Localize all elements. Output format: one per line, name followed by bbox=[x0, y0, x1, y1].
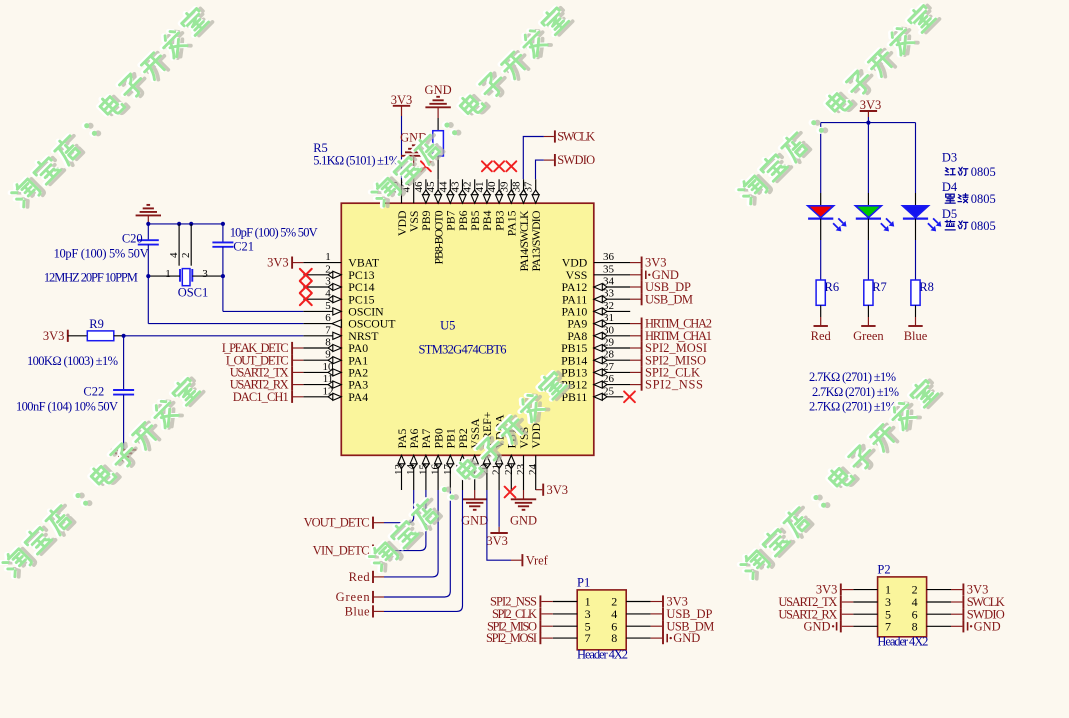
pin 10 (PA2) bbox=[303, 371, 341, 373]
svg-text:USB_DM: USB_DM bbox=[645, 292, 693, 306]
node junction C20 top bbox=[146, 222, 150, 226]
svg-text:12MHZ 20PF 10PPM: 12MHZ 20PF 10PPM bbox=[44, 271, 138, 285]
svg-text:Vref: Vref bbox=[526, 553, 549, 567]
svg-text:33: 33 bbox=[603, 288, 615, 300]
pin 8 (PA0) bbox=[303, 347, 341, 349]
svg-text:3: 3 bbox=[202, 268, 208, 280]
port HRTIM_CHA1 (pin 30) bbox=[630, 335, 642, 337]
svg-text:32: 32 bbox=[603, 300, 614, 312]
svg-text:Red: Red bbox=[811, 329, 832, 343]
svg-text:3V3: 3V3 bbox=[267, 256, 289, 270]
svg-text:Red: Red bbox=[349, 570, 371, 584]
ground (top-left earth symbol) bbox=[136, 214, 161, 216]
svg-text:SWCLK: SWCLK bbox=[557, 130, 595, 144]
svg-text:2.7KΩ (2701) ±1%: 2.7KΩ (2701) ±1% bbox=[809, 370, 896, 384]
wire 3V3 to pin 48 bbox=[401, 116, 403, 179]
pin 46 (PB9) bbox=[425, 179, 427, 203]
port SPI2_MISO (pin 28) bbox=[630, 359, 642, 361]
port USB_DM (pin 33) bbox=[630, 298, 642, 300]
svg-text:41: 41 bbox=[474, 182, 486, 193]
svg-text:46: 46 bbox=[413, 181, 425, 193]
connector P1 (Header 4X2) bbox=[577, 590, 626, 650]
pin 22 (PB10) bbox=[510, 455, 512, 490]
pin 29 (PB15) bbox=[594, 347, 630, 349]
svg-text:5.1KΩ (5101) ±1%: 5.1KΩ (5101) ±1% bbox=[313, 153, 399, 167]
svg-text:17: 17 bbox=[442, 464, 454, 476]
pin 17 (PB1) bbox=[449, 455, 451, 490]
port I_OUT_DETC (pin 9) bbox=[291, 354, 293, 366]
svg-text:R7: R7 bbox=[872, 280, 887, 294]
no-connect X pin 46 bbox=[421, 161, 431, 171]
pin 38 (PA14/SWCLK) bbox=[523, 179, 525, 203]
port USB_DP (pin 34) bbox=[630, 286, 642, 288]
svg-text:39: 39 bbox=[498, 181, 510, 193]
pin 9 (PA1) bbox=[303, 359, 341, 361]
svg-text:7: 7 bbox=[585, 631, 591, 645]
no-connect X pin 2 bbox=[300, 269, 312, 281]
pin 23 (VSS) bbox=[523, 455, 525, 490]
pin 24 (VDD) bbox=[535, 455, 537, 490]
svg-text:28: 28 bbox=[603, 349, 615, 361]
svg-text:R6: R6 bbox=[825, 280, 840, 294]
pin 40 (PB3) bbox=[498, 179, 500, 203]
pin 48 (VDD) bbox=[401, 179, 403, 203]
capacitor C20 bbox=[147, 224, 149, 240]
svg-text:2: 2 bbox=[325, 263, 331, 275]
no-connect X pin 3 bbox=[300, 281, 312, 293]
svg-text:44: 44 bbox=[437, 181, 449, 193]
node junction OSC1 pin2 bbox=[189, 222, 193, 226]
svg-text:VIN_DETC: VIN_DETC bbox=[313, 544, 370, 558]
port Vref (pin 20 VREF+) bbox=[487, 490, 511, 560]
svg-text:38: 38 bbox=[511, 181, 523, 193]
svg-text:Blue: Blue bbox=[345, 604, 370, 618]
port SPI2_MOSI (pin 29) bbox=[630, 347, 642, 349]
port 3V3 (pin 1 VBAT) bbox=[291, 257, 293, 269]
svg-text:0805: 0805 bbox=[971, 192, 996, 206]
svg-text:100nF (104) 10% 50V: 100nF (104) 10% 50V bbox=[16, 399, 118, 413]
LED D5 bbox=[903, 206, 929, 218]
resistor R8 bbox=[911, 280, 920, 305]
resistor R5 bbox=[437, 118, 439, 131]
svg-text:P1: P1 bbox=[577, 576, 590, 590]
no-connect X pin 40 bbox=[494, 161, 504, 171]
svg-text:GND: GND bbox=[461, 514, 488, 528]
wire OSCOUT net bbox=[147, 276, 149, 324]
wire Red net bbox=[384, 490, 438, 577]
P2 port SWCLK (right row 2) bbox=[962, 596, 964, 608]
pin 42 (PB5) bbox=[474, 179, 476, 203]
svg-text:7: 7 bbox=[325, 324, 331, 336]
svg-text:SWDIO: SWDIO bbox=[557, 153, 595, 167]
pin 39 (PA15) bbox=[510, 179, 512, 203]
svg-text:9: 9 bbox=[325, 349, 331, 361]
port 3V3 (pin 24 VDD) bbox=[536, 489, 543, 491]
svg-text:45: 45 bbox=[425, 181, 437, 193]
D3 value label (red LED 0805) bbox=[0, 0, 1, 1]
P1 port USB_DP (right row 2) bbox=[662, 608, 664, 620]
pin 44 (PB7) bbox=[449, 179, 451, 203]
no-connect X pin 4 bbox=[300, 293, 312, 305]
P2 port 3V3 (left row 1) bbox=[840, 584, 842, 596]
pin 36 (VDD) bbox=[594, 262, 630, 264]
wire D3 cathode to R6 bbox=[820, 219, 822, 240]
svg-text:Header 4X2: Header 4X2 bbox=[577, 648, 628, 662]
pin 12 (PA4) bbox=[303, 396, 341, 398]
pin 35 (VSS) bbox=[594, 274, 630, 276]
node junction R9/C22/NRST bbox=[122, 334, 126, 338]
no-connect X pin 25 bbox=[624, 391, 635, 402]
port Green (to pin 17) bbox=[372, 591, 374, 603]
svg-text:GND: GND bbox=[673, 631, 700, 645]
pin 5 (OSCIN) bbox=[303, 310, 341, 312]
crystal OSC1 bbox=[178, 224, 180, 266]
svg-text:8: 8 bbox=[611, 631, 617, 645]
svg-text:42: 42 bbox=[462, 182, 474, 193]
svg-text:30: 30 bbox=[603, 324, 615, 336]
pin 41 (PB4) bbox=[486, 179, 488, 203]
P1 port SPI2_MISO (left row 3) bbox=[539, 620, 541, 632]
svg-text:100KΩ (1003) ±1%: 100KΩ (1003) ±1% bbox=[27, 354, 118, 368]
pin 34 (PA12) bbox=[594, 286, 630, 288]
svg-text:2.7KΩ (2701) ±1%: 2.7KΩ (2701) ±1% bbox=[809, 400, 896, 414]
wire NRST net bbox=[124, 335, 304, 337]
capacitor C21 bbox=[222, 224, 224, 243]
no-connect X pin 22 bbox=[505, 487, 516, 498]
D4 value label 翠绿 0805 bbox=[945, 194, 955, 203]
P1 port 3V3 (right row 1) bbox=[662, 595, 664, 607]
svg-text:C22: C22 bbox=[83, 384, 104, 398]
ground (below C22) bbox=[111, 449, 136, 451]
P2 port GND (right row 4) bbox=[962, 620, 964, 632]
P2 port 3V3 (right row 1) bbox=[962, 584, 964, 596]
port Red (to pin 16) bbox=[372, 571, 374, 583]
svg-text:GND: GND bbox=[510, 514, 537, 528]
LED D3 bbox=[808, 206, 834, 218]
node junction OSC1 pin4 bbox=[177, 222, 181, 226]
svg-text:U5: U5 bbox=[440, 318, 455, 332]
svg-text:26: 26 bbox=[603, 373, 615, 385]
pin 37 (PA13/SWDIO) bbox=[535, 179, 537, 203]
pin 26 (PB12) bbox=[594, 384, 630, 386]
svg-text:43: 43 bbox=[450, 181, 462, 193]
svg-text:27: 27 bbox=[603, 361, 615, 373]
svg-text:D5: D5 bbox=[942, 207, 957, 221]
pin 43 (PB6) bbox=[462, 179, 464, 203]
svg-text:4: 4 bbox=[325, 288, 331, 300]
power port 3V3 (pin 21 VDDA) bbox=[498, 490, 500, 527]
P2 port USART2_TX (left row 2) bbox=[840, 596, 842, 608]
pin 31 (PA9) bbox=[594, 323, 630, 325]
pin 18 (PB2) bbox=[462, 455, 464, 490]
no-connect X pin 41 bbox=[482, 161, 492, 171]
wire LED 3V3 bus bbox=[821, 122, 916, 124]
svg-text:SPI2_MOSI: SPI2_MOSI bbox=[486, 631, 537, 645]
svg-text:GND: GND bbox=[804, 619, 831, 633]
P1 port SPI2_NSS (left row 1) bbox=[539, 595, 541, 607]
svg-text:OSC1: OSC1 bbox=[178, 286, 209, 300]
svg-text:R9: R9 bbox=[89, 317, 104, 331]
power port Blue bbox=[915, 317, 917, 326]
pin 28 (PB14) bbox=[594, 359, 630, 361]
port SPI2_NSS (pin 26) bbox=[630, 384, 642, 386]
svg-text:23: 23 bbox=[515, 464, 527, 476]
OSC1 pin 3 wire bbox=[192, 275, 223, 277]
svg-text:16: 16 bbox=[430, 464, 442, 476]
svg-text:PA13/SWDIO: PA13/SWDIO bbox=[529, 210, 543, 271]
pin 15 (PA7) bbox=[425, 455, 427, 490]
pin 11 (PA3) bbox=[303, 384, 341, 386]
pin 3 (PC14) bbox=[303, 286, 341, 288]
svg-text:40: 40 bbox=[486, 181, 498, 193]
svg-text:35: 35 bbox=[603, 263, 615, 275]
svg-text:3V3: 3V3 bbox=[860, 98, 882, 112]
IC U5 (MCU STM32G474CBT6) bbox=[341, 203, 594, 455]
svg-text:29: 29 bbox=[603, 337, 615, 349]
P1 port SPI2_CLK (left row 2) bbox=[539, 608, 541, 620]
svg-text:24: 24 bbox=[527, 464, 539, 476]
svg-text:34: 34 bbox=[603, 276, 615, 288]
wire Green net bbox=[384, 490, 450, 597]
pin 45 (PB8-BOOT0) bbox=[437, 179, 439, 203]
svg-text:R8: R8 bbox=[919, 280, 934, 294]
port 3V3 (pin 36) bbox=[630, 262, 642, 264]
power port 3V3 (pin 48 VDD) bbox=[393, 105, 410, 107]
pin 2 (PC13) bbox=[303, 274, 341, 276]
svg-text:D4: D4 bbox=[942, 180, 958, 194]
svg-text:4: 4 bbox=[168, 252, 180, 258]
port VIN_DETC (to pin 15) bbox=[372, 545, 374, 557]
svg-text:8: 8 bbox=[912, 619, 918, 633]
pin 7 (NRST) bbox=[303, 335, 341, 337]
D5 value label 蓝灯 0805 bbox=[945, 220, 955, 230]
svg-text:7: 7 bbox=[885, 619, 891, 633]
pin 13 (PA5) bbox=[401, 455, 403, 490]
svg-text:8: 8 bbox=[325, 337, 331, 349]
node junction C21 top bbox=[221, 222, 225, 226]
svg-text:37: 37 bbox=[523, 181, 535, 193]
port VOUT_DETC (to pin 14) bbox=[372, 517, 374, 529]
power port 3V3 (left of R9) bbox=[67, 330, 69, 342]
svg-text:11: 11 bbox=[323, 373, 334, 385]
pin 27 (PB13) bbox=[594, 371, 630, 373]
svg-text:25: 25 bbox=[603, 385, 615, 397]
pin 1 (VBAT) bbox=[303, 262, 341, 264]
P1 port SPI2_MOSI (left row 4) bbox=[539, 632, 541, 644]
svg-text:3V3: 3V3 bbox=[486, 534, 508, 548]
svg-text:VDD: VDD bbox=[529, 422, 543, 448]
svg-text:22: 22 bbox=[503, 464, 515, 475]
svg-text:D3: D3 bbox=[942, 151, 957, 165]
pin 47 (VSS) bbox=[413, 179, 415, 203]
pin 20 (VREF+) bbox=[486, 455, 488, 490]
LED D4 bbox=[855, 206, 881, 218]
svg-text:PA4: PA4 bbox=[348, 390, 368, 404]
svg-text:21: 21 bbox=[491, 464, 503, 475]
wire bus C20/OSC1/C21 top bbox=[148, 223, 223, 225]
power port Green bbox=[867, 317, 869, 326]
port Blue (to pin 18) bbox=[372, 605, 374, 617]
svg-text:2.7KΩ (2701) ±1%: 2.7KΩ (2701) ±1% bbox=[812, 385, 899, 399]
svg-text:STM32G474CBT6: STM32G474CBT6 bbox=[419, 343, 507, 357]
port USART2_TX (pin 10) bbox=[291, 366, 293, 378]
svg-text:C20: C20 bbox=[122, 231, 143, 245]
port GND (pin 35) bbox=[630, 274, 642, 276]
node junction OSC1 pin3 bbox=[221, 274, 225, 278]
D3 value label 红灯 0805 bbox=[945, 168, 955, 175]
svg-text:3V3: 3V3 bbox=[391, 93, 413, 107]
svg-text:3V3: 3V3 bbox=[547, 483, 569, 497]
power port Red bbox=[820, 317, 822, 326]
node junction LED bus bbox=[866, 121, 870, 125]
svg-text:DAC1_CH1: DAC1_CH1 bbox=[233, 390, 289, 404]
OSC1 pin 1 wire bbox=[148, 275, 180, 277]
P1 port USB_DM (right row 3) bbox=[662, 620, 664, 632]
svg-text:31: 31 bbox=[603, 312, 614, 324]
svg-text:C21: C21 bbox=[233, 240, 254, 254]
svg-text:10pF (100) 5% 50V: 10pF (100) 5% 50V bbox=[54, 247, 149, 261]
ground GND (pin 19 VSSA) bbox=[474, 490, 476, 499]
pin 16 (PB0) bbox=[437, 455, 439, 490]
svg-text:Blue: Blue bbox=[904, 329, 928, 343]
port HRTIM_CHA2 (pin 31) bbox=[630, 323, 642, 325]
svg-text:1: 1 bbox=[165, 268, 171, 280]
svg-text:3: 3 bbox=[325, 276, 331, 288]
svg-text:GND: GND bbox=[425, 83, 452, 97]
svg-text:13: 13 bbox=[393, 464, 405, 476]
svg-text:10pF (100) 5% 50V: 10pF (100) 5% 50V bbox=[230, 225, 318, 239]
power port 3V3 (LED rail) bbox=[860, 110, 877, 112]
port DAC1_CH1 (pin 12) bbox=[291, 391, 293, 403]
pin 14 (PA6) bbox=[413, 455, 415, 490]
P2 port USART2_RX (left row 3) bbox=[840, 608, 842, 620]
connector P2 (Header 4X2) bbox=[878, 577, 927, 637]
resistor R7 bbox=[864, 280, 873, 305]
P2 port SWDIO (right row 3) bbox=[962, 608, 964, 620]
svg-text:12: 12 bbox=[323, 385, 334, 397]
svg-text:0805: 0805 bbox=[971, 165, 996, 179]
pin 21 (VDDA) bbox=[498, 455, 500, 490]
svg-text:10: 10 bbox=[323, 361, 335, 373]
pin 30 (PA8) bbox=[594, 335, 630, 337]
wire VIN_DETC net bbox=[384, 490, 426, 551]
svg-text:Green: Green bbox=[336, 590, 371, 604]
svg-text:5: 5 bbox=[325, 300, 331, 312]
port SWDIO bbox=[536, 160, 544, 179]
svg-text:Header 4X2: Header 4X2 bbox=[877, 635, 928, 649]
wire VOUT_DETC net bbox=[384, 490, 414, 523]
wire 3V3 to D5 anode bbox=[915, 123, 917, 193]
wire D5 cathode to R8 bbox=[915, 219, 917, 240]
svg-text:1: 1 bbox=[325, 251, 331, 263]
svg-text:0805: 0805 bbox=[971, 219, 996, 233]
port SWCLK bbox=[523, 137, 544, 180]
node junction OSC1 pin1 bbox=[146, 274, 150, 278]
resistor R6 bbox=[816, 280, 825, 305]
P2 port GND (left row 4) bbox=[840, 620, 842, 632]
svg-text:Green: Green bbox=[853, 329, 884, 343]
resistor R9 bbox=[68, 335, 88, 337]
svg-text:P2: P2 bbox=[877, 563, 890, 577]
svg-text:15: 15 bbox=[417, 464, 429, 476]
port USART2_RX (pin 11) bbox=[291, 379, 293, 391]
no-connect X pin 39 bbox=[506, 161, 516, 171]
pin 33 (PA11) bbox=[594, 298, 630, 300]
pin 6 (OSCOUT) bbox=[303, 323, 341, 325]
svg-text:GND: GND bbox=[974, 619, 1001, 633]
wire D4 cathode to R7 bbox=[867, 219, 869, 240]
ground GND (pin 23 VSS) bbox=[523, 490, 525, 499]
port I_PEAK_DETC (pin 8) bbox=[291, 342, 293, 354]
capacitor C22 bbox=[123, 336, 125, 390]
pin 4 (PC15) bbox=[303, 298, 341, 300]
wire 3V3 to D4 anode bbox=[867, 123, 869, 193]
svg-text:3V3: 3V3 bbox=[43, 329, 65, 343]
pin 19 (VSSA) bbox=[474, 455, 476, 490]
svg-text:2: 2 bbox=[180, 253, 192, 259]
pin 32 (PA10) bbox=[594, 310, 630, 312]
svg-text:36: 36 bbox=[603, 251, 615, 263]
pin 25 (PB11) bbox=[594, 396, 624, 398]
wire OSCIN net bbox=[222, 276, 224, 311]
wire 3V3 to D3 anode bbox=[820, 123, 822, 193]
svg-text:6: 6 bbox=[325, 312, 331, 324]
svg-text:VOUT_DETC: VOUT_DETC bbox=[304, 516, 370, 530]
svg-text:SPI2_NSS: SPI2_NSS bbox=[645, 378, 703, 392]
wire Blue net bbox=[384, 490, 463, 611]
port SPI2_CLK (pin 27) bbox=[630, 371, 642, 373]
P1 port GND (right row 4) bbox=[662, 632, 664, 644]
svg-text:14: 14 bbox=[405, 464, 417, 476]
